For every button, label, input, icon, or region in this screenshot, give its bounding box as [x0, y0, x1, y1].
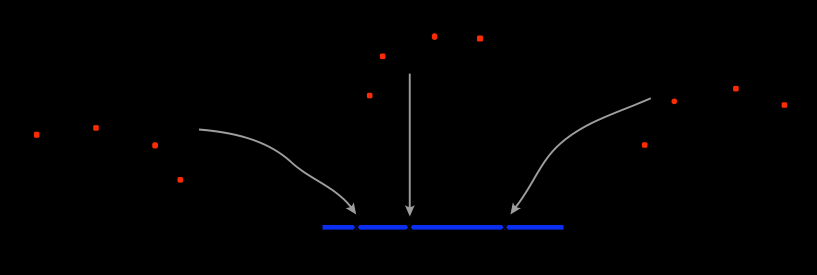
- labeled atom C3 (red dot): [432, 33, 437, 40]
- node A: black bond crossing at junction 1: [352, 222, 361, 233]
- labeled atom R2 (red dot): [733, 86, 739, 92]
- wire: blue highlighted carbon chain: [323, 225, 564, 230]
- labeled atom L4 (red dot): [178, 177, 184, 183]
- arrow left (curved, from left structure to chain): [199, 130, 351, 208]
- labeled atom L3 (red dot): [152, 142, 158, 148]
- labeled atom C1 (red dot): [380, 54, 386, 60]
- labeled atom L2 (red dot): [93, 125, 99, 131]
- labeled atom R3 (red dot): [782, 102, 788, 108]
- arrow right (curved, from right structure to chain): [516, 98, 651, 207]
- labeled atom C4 (red dot): [477, 36, 483, 42]
- labeled atom C2 (red dot): [367, 93, 373, 99]
- labeled atom L1 (red dot): [34, 132, 40, 138]
- node B: black bond crossing at junction 2: [405, 222, 414, 233]
- labeled atom R4 (red dot): [642, 142, 648, 148]
- node C: black bond crossing at junction 3: [500, 222, 509, 233]
- labeled atom R1 (red dot): [672, 99, 678, 105]
- arrow center (straight vertical, from center structure to chain): [409, 74, 411, 208]
